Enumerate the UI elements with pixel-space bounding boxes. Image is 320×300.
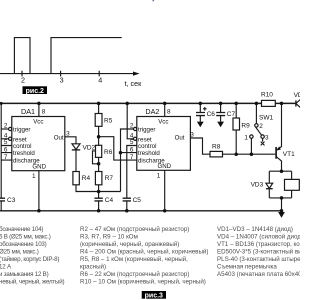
svg-text:VD4: VD4: [294, 92, 300, 99]
svg-text:7: 7: [4, 154, 8, 161]
svg-text:ED500V-3*5 (3-контактный винто: ED500V-3*5 (3-контактный винтовой: [217, 249, 300, 256]
svg-text:C7: C7: [227, 111, 236, 118]
svg-text:R4 – 200 Ом (красный, черный,: R4 – 200 Ом (красный, черный, коричневый…: [80, 249, 208, 256]
svg-text:2: 2: [259, 123, 263, 130]
svg-text:DA2: DA2: [145, 107, 159, 116]
svg-text:treshold: treshold: [13, 150, 35, 157]
svg-text:невый, черный, желтый): невый, черный, желтый): [0, 279, 64, 286]
svg-text:6: 6: [4, 146, 8, 153]
svg-text:C4: C4: [105, 197, 114, 204]
svg-text:treshold: treshold: [138, 150, 160, 157]
svg-text:trigger: trigger: [138, 127, 155, 134]
svg-text:1: 1: [32, 173, 36, 180]
svg-text:SW1: SW1: [259, 114, 273, 121]
svg-text:R10 – 10 Ом (коричневый, черны: R10 – 10 Ом (коричневый, черный, черный): [80, 279, 206, 286]
svg-text:5: 5: [4, 139, 8, 146]
svg-text:5: 5: [130, 139, 134, 146]
svg-text:control: control: [138, 143, 156, 150]
svg-text:2: 2: [4, 123, 8, 130]
svg-text:DA1: DA1: [21, 107, 35, 116]
svg-text:рис.2: рис.2: [26, 88, 44, 95]
svg-text:8: 8: [42, 109, 46, 116]
svg-text:R6 – 22 кОм (подстроечный рези: R6 – 22 кОм (подстроечный резистор): [80, 271, 189, 278]
svg-text:и замыкания 12 В): и замыкания 12 В): [0, 271, 49, 278]
svg-text:C5: C5: [133, 197, 142, 204]
svg-text:12 А: 12 А: [0, 264, 12, 271]
svg-text:VT1: VT1: [283, 151, 295, 158]
svg-text:trigger: trigger: [13, 127, 30, 134]
svg-text:R4: R4: [82, 175, 91, 182]
svg-text:(таймер, корпус DIP-8): (таймер, корпус DIP-8): [0, 256, 59, 263]
svg-text:Съемная перемычка: Съемная перемычка: [217, 264, 277, 271]
svg-text:8: 8: [167, 109, 171, 116]
svg-text:GND: GND: [157, 163, 171, 170]
svg-text:1: 1: [157, 172, 161, 179]
svg-text:control: control: [13, 143, 31, 150]
svg-text:t, сек: t, сек: [125, 79, 143, 88]
svg-text:VD1–VD3 – 1N4148 (диод): VD1–VD3 – 1N4148 (диод): [217, 226, 293, 233]
svg-text:R6: R6: [104, 149, 113, 156]
svg-text:GND: GND: [32, 163, 46, 170]
svg-text:бозначение 104): бозначение 104): [0, 226, 43, 233]
svg-text:2: 2: [130, 123, 134, 130]
svg-text:Out: Out: [175, 135, 185, 142]
svg-text:C6: C6: [207, 111, 216, 118]
svg-text:3: 3: [60, 75, 64, 84]
svg-text:3: 3: [265, 134, 269, 141]
svg-text:1: 1: [244, 134, 248, 141]
svg-text:PLS-40 (3-контактный штыревой: PLS-40 (3-контактный штыревой: [217, 256, 300, 263]
svg-text:C3: C3: [7, 197, 16, 204]
svg-text:6 В (Ø25 мм, макс.): 6 В (Ø25 мм, макс.): [0, 234, 51, 241]
svg-text:A5403 (печатная плата 60х40): A5403 (печатная плата 60х40): [217, 271, 300, 278]
svg-text:2: 2: [21, 75, 25, 84]
svg-text:VD4 – 1N4007 (силовой диод): VD4 – 1N4007 (силовой диод): [217, 234, 300, 241]
svg-text:обозначение 103): обозначение 103): [0, 241, 47, 248]
svg-text:VD3: VD3: [251, 181, 264, 188]
svg-text:7: 7: [130, 154, 134, 161]
svg-text:Vcc: Vcc: [33, 119, 43, 126]
svg-text:4: 4: [98, 75, 102, 84]
svg-text:R7: R7: [105, 175, 114, 182]
svg-text:R2 – 47 кОм (подстроечный рези: R2 – 47 кОм (подстроечный резистор): [80, 226, 189, 233]
svg-text:Out: Out: [54, 135, 64, 142]
svg-text:R8: R8: [212, 143, 221, 150]
svg-text:(коричневый, черный, оранжевый: (коричневый, черный, оранжевый): [80, 241, 179, 248]
svg-text:Ø25 мм, макс.): Ø25 мм, макс.): [0, 249, 39, 256]
svg-text:R5: R5: [104, 118, 113, 125]
svg-text:R3, R7, R9 – 10 кОм: R3, R7, R9 – 10 кОм: [80, 234, 138, 241]
svg-text:R5, R8 – 1 кОм (коричневый, че: R5, R8 – 1 кОм (коричневый, черный,: [80, 256, 188, 263]
svg-text:R9: R9: [241, 123, 250, 130]
svg-text:Vcc: Vcc: [158, 119, 168, 126]
svg-text:3: 3: [190, 131, 194, 138]
svg-text:красный): красный): [80, 264, 106, 271]
svg-text:R10: R10: [261, 92, 273, 99]
svg-text:6: 6: [130, 146, 134, 153]
svg-text:VT1 – BD136 (транзистор, корпу: VT1 – BD136 (транзистор, корпус): [217, 241, 300, 248]
svg-text:рис.3: рис.3: [145, 293, 163, 300]
